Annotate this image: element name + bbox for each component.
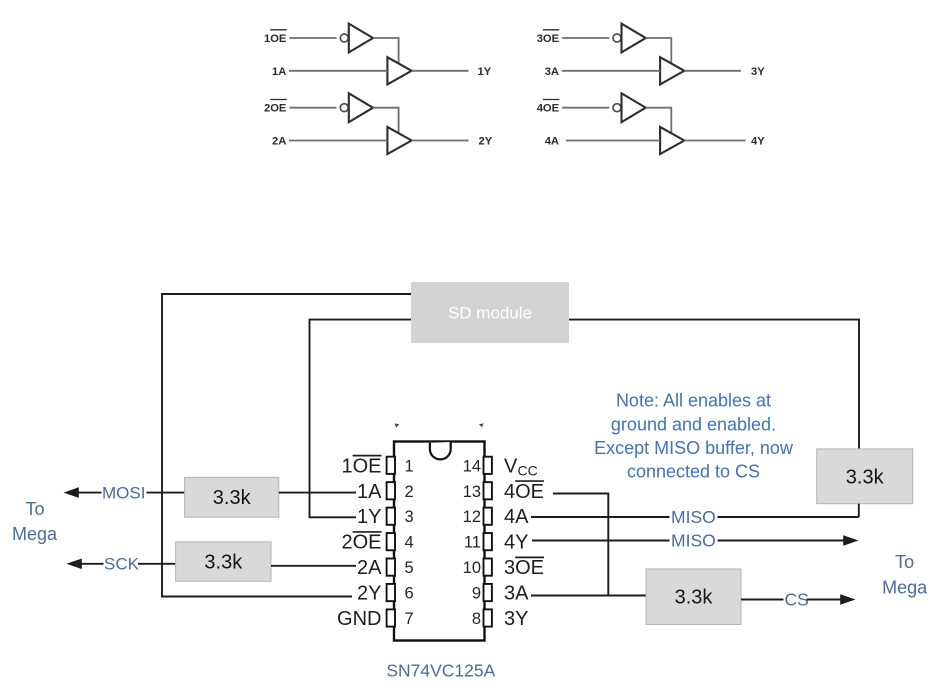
- wire MOSI net: SD module to 1Y: [310, 320, 412, 518]
- svg-text:2Y: 2Y: [479, 136, 493, 148]
- svg-text:6: 6: [405, 585, 414, 603]
- IC pin label 3OE: [504, 557, 544, 579]
- svg-text:SN74VC125A: SN74VC125A: [386, 661, 495, 681]
- wire 4Y to MISO label: [532, 540, 670, 542]
- wire 2OE to inverter: [290, 107, 337, 109]
- svg-text:4A: 4A: [504, 506, 529, 528]
- wire 2Y output: [412, 140, 469, 142]
- svg-text:5: 5: [405, 559, 414, 577]
- pin 10 box: [484, 559, 492, 576]
- svg-text:2A: 2A: [272, 136, 286, 148]
- pin 14 box: [484, 457, 492, 474]
- svg-text:GND: GND: [337, 608, 381, 630]
- svg-text:4Y: 4Y: [751, 136, 765, 148]
- svg-text:MISO: MISO: [671, 507, 716, 527]
- svg-text:CS: CS: [785, 590, 809, 610]
- pin 12 box: [484, 508, 492, 525]
- label To Mega right: [882, 552, 928, 598]
- label To Mega left: [12, 499, 58, 544]
- wire 1OE to inverter: [290, 37, 337, 39]
- svg-text:1OE: 1OE: [264, 33, 287, 45]
- svg-text:MISO: MISO: [671, 531, 716, 551]
- svg-text:Mega: Mega: [882, 578, 928, 598]
- svg-text:3A: 3A: [545, 66, 559, 78]
- svg-text:3OE: 3OE: [504, 557, 544, 579]
- svg-text:12: 12: [463, 508, 481, 526]
- svg-text:2A: 2A: [357, 557, 382, 579]
- wire 3OE to inverter: [562, 37, 609, 39]
- svg-text:1A: 1A: [357, 481, 382, 503]
- stray tick mark right: [479, 423, 484, 427]
- svg-text:7: 7: [405, 610, 414, 628]
- wire SD module to resistor R3: [569, 320, 859, 449]
- svg-text:3: 3: [405, 508, 414, 526]
- svg-text:2: 2: [405, 483, 414, 501]
- svg-text:4OE: 4OE: [537, 103, 560, 115]
- buffer triangle 4: [660, 127, 684, 154]
- wire 4Y output: [684, 140, 745, 142]
- IC pin label VCC: [504, 455, 538, 478]
- svg-text:4: 4: [405, 534, 414, 552]
- svg-text:1Y: 1Y: [357, 506, 381, 528]
- SD module block: [411, 282, 569, 343]
- wire 1Y output: [412, 70, 469, 72]
- inverter bubble 1: [340, 34, 348, 42]
- buffer triangle 1: [387, 57, 411, 84]
- IC U1 body SN74VC125A: [394, 442, 485, 641]
- resistor R2 3.3k: [176, 542, 271, 582]
- svg-text:3.3k: 3.3k: [213, 487, 252, 509]
- svg-text:2Y: 2Y: [357, 583, 381, 605]
- net label 2OE: [264, 100, 287, 115]
- svg-text:13: 13: [463, 483, 481, 501]
- svg-text:To: To: [25, 499, 44, 519]
- svg-text:Except MISO buffer, now: Except MISO buffer, now: [594, 438, 794, 458]
- IC pin label 1OE: [341, 455, 381, 477]
- svg-text:1A: 1A: [272, 66, 286, 78]
- note text blue: [594, 391, 794, 482]
- pin 4 box: [387, 533, 395, 550]
- wire 3A to R4: [531, 595, 646, 597]
- svg-text:4A: 4A: [545, 136, 559, 148]
- wire 3Y output: [684, 70, 741, 72]
- arrow MOSI to Mega: [64, 487, 79, 498]
- buffer triangle 3: [660, 57, 684, 84]
- wire enable 3 to buffer: [646, 38, 672, 63]
- svg-text:Mega: Mega: [12, 524, 58, 544]
- resistor R4 3.3k: [646, 569, 741, 625]
- IC pin label 4OE: [504, 481, 544, 503]
- pin 6 box: [387, 584, 395, 601]
- svg-text:2OE: 2OE: [264, 103, 287, 115]
- pin 7 box: [387, 609, 395, 626]
- wire 4A to MISO label: [531, 516, 670, 518]
- wire 4A input: [566, 140, 660, 142]
- svg-text:SCK: SCK: [104, 555, 140, 574]
- pin 13 box: [484, 482, 492, 499]
- svg-text:CC: CC: [518, 462, 538, 478]
- svg-text:To: To: [895, 552, 914, 572]
- wire R1 to pin 2 1A: [279, 492, 356, 494]
- wire 3A input: [562, 70, 660, 72]
- svg-text:4OE: 4OE: [504, 481, 544, 503]
- pin 8 box: [484, 609, 492, 626]
- wire MISO label to arrow: [718, 540, 845, 542]
- svg-text:1OE: 1OE: [341, 455, 381, 477]
- wire SCK net: SD module to left vertical: [162, 294, 411, 597]
- svg-text:11: 11: [464, 534, 481, 552]
- net label 4OE: [537, 100, 560, 115]
- inverter bubble 3: [613, 34, 621, 42]
- svg-text:3.3k: 3.3k: [204, 551, 243, 573]
- pin 5 box: [387, 559, 395, 576]
- arrow CS to Mega: [840, 594, 855, 605]
- svg-text:3Y: 3Y: [751, 66, 765, 78]
- pin 9 box: [484, 584, 492, 601]
- wire R4 to CS label: [741, 599, 784, 601]
- wire arrow to MOSI label: [78, 492, 102, 494]
- svg-text:connected to CS: connected to CS: [627, 461, 760, 481]
- svg-text:1: 1: [405, 457, 414, 475]
- pin 11 box: [484, 533, 492, 550]
- svg-text:3.3k: 3.3k: [675, 587, 714, 609]
- svg-text:Note: All enables at: Note: All enables at: [616, 391, 771, 411]
- buffer triangle 2: [387, 127, 411, 154]
- wire 4OE to CS net: [553, 494, 608, 596]
- svg-text:1Y: 1Y: [478, 66, 492, 78]
- inverter triangle 2: [349, 93, 373, 122]
- inverter bubble 4: [613, 104, 621, 112]
- wire 4OE to inverter: [562, 107, 609, 109]
- wire MISO label to R3: [718, 516, 859, 518]
- wire enable 2 to buffer: [373, 108, 399, 133]
- pin 3 box: [387, 508, 395, 525]
- resistor R1 3.3k: [185, 477, 279, 517]
- svg-text:2OE: 2OE: [341, 532, 381, 554]
- inverter triangle 4: [622, 93, 646, 122]
- IC notch: [430, 442, 451, 459]
- wire R3 to 4A MISO line: [858, 504, 860, 517]
- pin 1 box: [387, 457, 395, 474]
- svg-text:SD module: SD module: [448, 304, 532, 323]
- net label 3OE: [537, 30, 560, 45]
- svg-text:4Y: 4Y: [504, 532, 528, 554]
- wire CS label to arrow: [807, 599, 842, 601]
- svg-text:3OE: 3OE: [537, 33, 560, 45]
- wire 2A input: [289, 140, 387, 142]
- inverter triangle 1: [349, 24, 373, 53]
- wire 1A input: [289, 70, 387, 72]
- svg-text:9: 9: [472, 585, 481, 603]
- svg-text:3Y: 3Y: [504, 608, 528, 630]
- inverter bubble 2: [340, 104, 348, 112]
- wire arrow to SCK label: [81, 563, 104, 565]
- arrow SCK to Mega: [67, 559, 82, 570]
- IC pin label 2OE: [341, 532, 381, 554]
- wire SCK label to R2: [138, 563, 176, 565]
- svg-text:3A: 3A: [504, 583, 529, 605]
- wire enable 1 to buffer: [373, 38, 399, 63]
- svg-text:10: 10: [463, 559, 481, 577]
- svg-text:MOSI: MOSI: [102, 483, 145, 502]
- wire R2 to pin 5 2A: [271, 565, 356, 567]
- inverter triangle 3: [622, 24, 646, 53]
- svg-text:ground and enabled.: ground and enabled.: [611, 414, 776, 434]
- stray tick mark left: [395, 423, 400, 427]
- wire MOSI label to R1: [147, 492, 185, 494]
- pin 2 box: [387, 482, 395, 499]
- wire enable 4 to buffer: [646, 108, 672, 133]
- resistor R3 3.3k: [817, 449, 913, 504]
- net label 1OE: [264, 30, 287, 45]
- svg-text:14: 14: [463, 457, 481, 475]
- svg-text:V: V: [504, 455, 518, 477]
- svg-text:8: 8: [472, 610, 481, 628]
- svg-text:3.3k: 3.3k: [846, 466, 885, 488]
- arrow MISO to Mega: [843, 535, 858, 546]
